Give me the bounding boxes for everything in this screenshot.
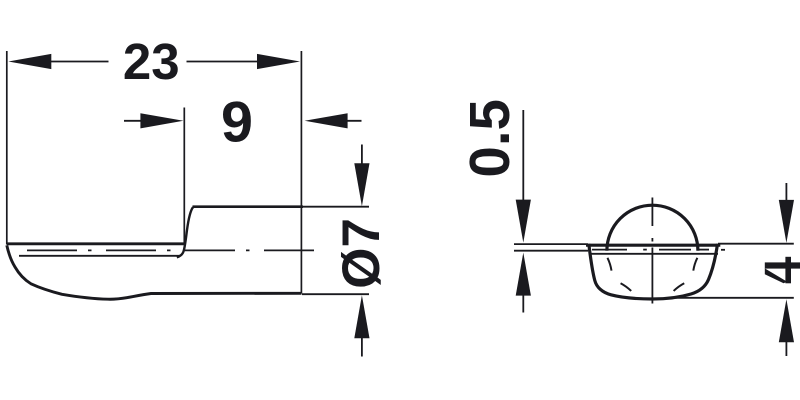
extension line left (dim 23, left side view)	[6, 51, 8, 245]
bowl inner thin line	[591, 253, 718, 255]
0.5 dimension top tail	[522, 110, 524, 204]
arrowhead 0.5 bottom	[516, 253, 531, 296]
extension line middle (dim 9)	[183, 108, 185, 245]
extension line 4 top	[718, 243, 794, 245]
arrowhead 0.5 top	[516, 200, 531, 243]
right view: flange strip bottom left	[514, 250, 588, 252]
bottom outline of part (side view)	[7, 245, 302, 299]
pin bottom extension line for dia 7	[302, 293, 369, 295]
vertical centerline upper dash	[651, 198, 653, 227]
svg-text:23: 23	[123, 33, 180, 90]
plate bottom thin line	[19, 255, 180, 257]
vertical centerline dot	[651, 238, 653, 242]
arrowhead 9 right	[305, 113, 348, 128]
svg-text:0.5: 0.5	[458, 99, 521, 178]
bowl outline (front view)	[589, 244, 718, 299]
body bottom edge (object line)	[7, 242, 186, 245]
dimension line 9 left tail	[124, 120, 143, 122]
pin circle lower arc hidden (dashed)	[607, 258, 611, 271]
dimension line 9 right tail	[344, 120, 362, 122]
bowl rim top (object line)	[586, 244, 720, 247]
0.5 dimension bottom tail	[522, 293, 524, 313]
arrowhead dia7 top	[354, 163, 369, 206]
arrowhead dia7 bottom	[354, 295, 369, 338]
4 dimension top tail	[785, 183, 787, 205]
extension line right (dims 23 and 9)	[300, 51, 302, 294]
svg-text:9: 9	[221, 91, 253, 155]
arrowhead 23 right	[257, 54, 300, 69]
extension line 4 bottom	[672, 297, 794, 299]
centerline of pin (side view)	[27, 249, 315, 251]
dia7 dimension bottom tail	[361, 334, 363, 357]
vertical centerline lower dash	[651, 248, 653, 304]
arrowhead 4 top	[779, 200, 794, 243]
svg-text:Ø7: Ø7	[332, 218, 391, 289]
4 dimension bottom tail	[785, 339, 787, 356]
pin top extension line for dia 7	[303, 206, 369, 208]
dimension line 23 (right segment)	[187, 61, 261, 63]
right view: flange strip top left	[514, 243, 588, 245]
label 4 (rotated digit drawn as path)	[765, 257, 800, 284]
step fillet swoosh	[177, 207, 193, 257]
dia7 dimension top tail	[361, 145, 363, 169]
arrowhead 23 left	[8, 54, 51, 69]
dimension line 23 (left segment)	[48, 61, 109, 63]
pin top edge (object line)	[193, 205, 304, 208]
pin circle upper arc (front view)	[607, 205, 698, 251]
horizontal centerline (front view)	[592, 249, 627, 251]
arrowhead 9 left	[140, 113, 183, 128]
arrowhead 4 bottom	[779, 299, 794, 342]
